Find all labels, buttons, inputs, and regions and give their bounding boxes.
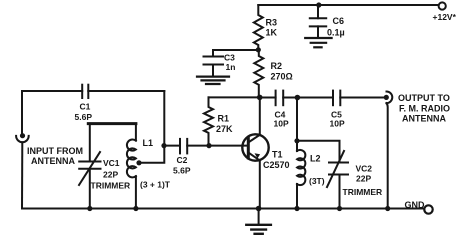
connector output jack — [384, 92, 393, 104]
svg-text:ANTENNA: ANTENNA — [402, 114, 446, 124]
svg-text:270Ω: 270Ω — [271, 72, 293, 82]
resistor R2 — [254, 50, 292, 98]
svg-text:+12V*: +12V* — [433, 12, 457, 22]
svg-text:10P: 10P — [330, 119, 345, 129]
svg-text:VC2: VC2 — [356, 164, 373, 174]
svg-text:TRIMMER: TRIMMER — [343, 187, 383, 197]
wire collector — [259, 97, 261, 134]
capacitor C2 — [164, 139, 191, 176]
svg-text:R1: R1 — [218, 114, 230, 124]
wire to C3 — [213, 49, 258, 51]
transistor T1 — [242, 134, 289, 170]
svg-text:OUTPUT TO: OUTPUT TO — [398, 93, 450, 103]
wire output jack to ground rail — [387, 103, 388, 208]
wire input to ground rail — [21, 142, 23, 208]
capacitor C1 — [75, 85, 93, 122]
wire node A up to C1 — [163, 91, 165, 146]
wire collector node to C4 — [260, 97, 276, 99]
svg-text:0.1µ: 0.1µ — [327, 28, 345, 38]
svg-text:ANTENNA: ANTENNA — [31, 156, 75, 166]
terminal GND — [405, 200, 433, 214]
svg-text:C1: C1 — [80, 102, 91, 112]
wire base — [187, 145, 248, 147]
terminal +12V — [433, 2, 457, 22]
svg-text:C2: C2 — [177, 155, 188, 165]
node junction C4/C5/L2 — [295, 95, 301, 101]
svg-text:1K: 1K — [266, 28, 278, 38]
inductor L2 — [297, 150, 325, 209]
wire input drop — [21, 91, 23, 136]
ground (C6) — [305, 38, 331, 47]
node junction base/R1 — [206, 143, 211, 148]
node junction L2/rail — [294, 206, 299, 211]
wire tap to node A — [138, 146, 164, 163]
svg-text:R2: R2 — [271, 61, 283, 71]
svg-text:27K: 27K — [216, 124, 233, 134]
wire C1 right — [88, 90, 164, 92]
resistor R3 — [254, 5, 278, 50]
svg-text:10P: 10P — [274, 119, 289, 129]
wire L2 branch — [296, 98, 298, 152]
svg-text:VC1: VC1 — [103, 158, 120, 168]
trimmer VC2 — [327, 151, 382, 209]
node junction R3/R2/C3 — [256, 47, 261, 52]
capacitor C6 — [310, 5, 345, 38]
svg-text:5.6P: 5.6P — [173, 166, 191, 176]
svg-text:GND: GND — [405, 200, 426, 210]
capacitor C5 — [330, 91, 345, 129]
node A junction C1/C2/tap — [161, 143, 166, 148]
node junction VC2/rail — [337, 206, 342, 211]
wire bottom ground rail — [22, 208, 424, 210]
capacitor C3 — [204, 50, 236, 76]
svg-text:T1: T1 — [272, 150, 283, 160]
ground (C3) — [197, 77, 229, 84]
svg-text:C2570: C2570 — [263, 160, 290, 170]
node junction output/rail — [385, 206, 390, 211]
svg-text:1n: 1n — [226, 62, 236, 72]
ground (emitter) — [246, 209, 271, 234]
node junction L1/rail — [133, 206, 138, 211]
node junction L2/VC2 — [294, 138, 299, 143]
node junction emitter/rail — [256, 206, 262, 212]
trimmer VC1 — [79, 124, 130, 209]
svg-text:C3: C3 — [224, 53, 235, 63]
wire to VC2 — [297, 141, 340, 163]
wire top supply rail — [258, 4, 438, 6]
svg-text:(3T): (3T) — [309, 176, 325, 186]
wire emitter — [259, 161, 261, 209]
node collector junction R2/C4 — [257, 95, 263, 101]
resistor R1 — [204, 97, 233, 145]
svg-text:R3: R3 — [266, 18, 278, 28]
svg-text:INPUT FROM: INPUT FROM — [27, 146, 83, 156]
node L1 tap — [136, 160, 141, 165]
node junction VC1/rail — [87, 206, 92, 211]
svg-text:22P: 22P — [103, 170, 118, 180]
inductor L1 — [127, 124, 171, 209]
svg-text:L1: L1 — [143, 138, 154, 148]
svg-text:F. M. RADIO: F. M. RADIO — [399, 103, 450, 113]
connector input jack — [16, 133, 29, 142]
svg-text:C6: C6 — [333, 16, 345, 26]
wire tank top — [88, 122, 136, 125]
capacitor C4 — [274, 91, 289, 129]
svg-text:(3 + 1)T: (3 + 1)T — [140, 180, 171, 190]
wire C1 left — [22, 90, 82, 92]
wire C4 to C5 — [283, 97, 333, 99]
node junction C6/top rail — [316, 2, 321, 7]
svg-text:TRIMMER: TRIMMER — [91, 181, 131, 191]
wire C5 to output — [340, 97, 386, 99]
svg-text:22P: 22P — [356, 174, 371, 184]
svg-text:5.6P: 5.6P — [75, 112, 93, 122]
svg-text:L2: L2 — [310, 154, 321, 164]
wire R1 top — [209, 96, 260, 98]
